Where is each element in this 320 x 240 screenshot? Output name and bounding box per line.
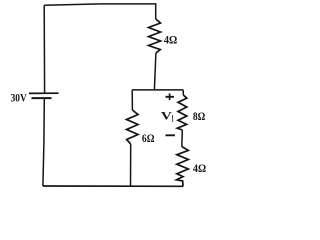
resistor 6ohm zigzag (127, 110, 139, 144)
wire inner box left stub (131, 90, 133, 110)
svg-text:30V: 30V (11, 91, 27, 105)
wire right branch top stub (182, 90, 184, 95)
wire top (44, 4, 156, 19)
wire inner box top edge (132, 89, 183, 91)
plus sign polarity (166, 96, 175, 98)
resistor 8ohm zigzag (177, 95, 187, 130)
svg-text:6Ω: 6Ω (142, 131, 155, 145)
svg-text:1: 1 (171, 113, 174, 123)
svg-text:8Ω: 8Ω (193, 109, 206, 123)
wire left lower (43, 99, 44, 186)
battery V1 30V top plate (29, 92, 59, 94)
battery 30V bottom plate (32, 97, 52, 99)
minus sign polarity (166, 134, 175, 136)
resistor 4ohm bottom zigzag (176, 147, 188, 187)
wire 6ohm branch lower (130, 144, 132, 186)
wire from top resistor down to node (154, 53, 156, 90)
svg-text:4Ω: 4Ω (193, 161, 207, 175)
wire bottom (43, 185, 183, 187)
resistor 4ohm top zigzag (149, 19, 161, 53)
svg-text:4Ω: 4Ω (164, 32, 178, 46)
wire between 8ohm and 4ohm (181, 130, 184, 147)
wire left upper (43, 5, 45, 93)
